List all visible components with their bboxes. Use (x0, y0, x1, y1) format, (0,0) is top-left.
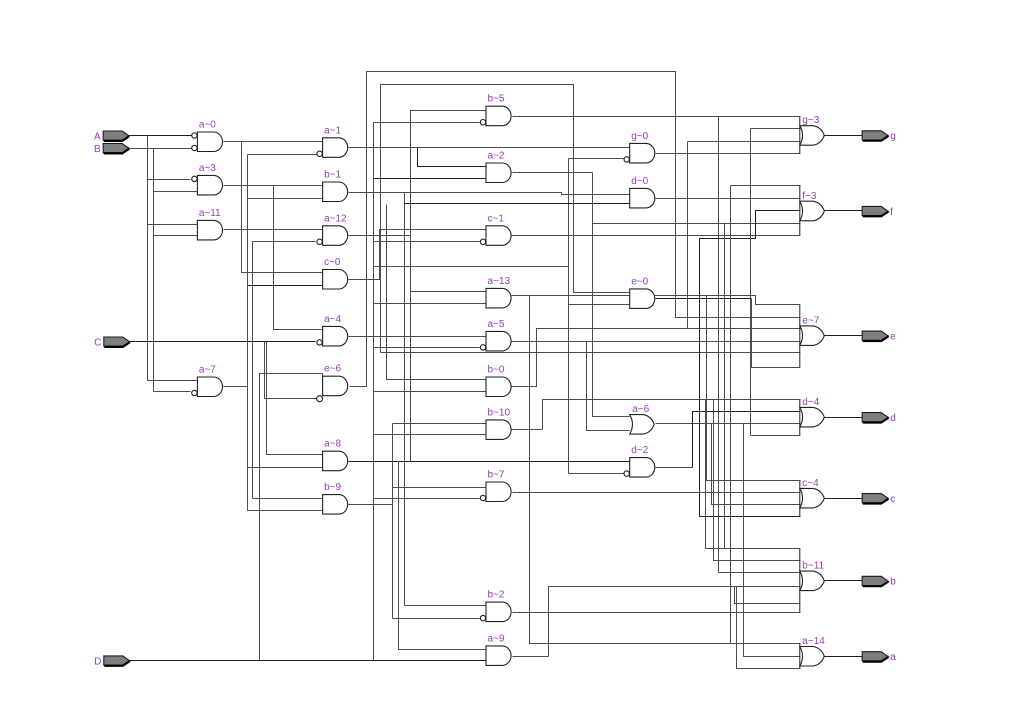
svg-text:a~9: a~9 (488, 633, 505, 644)
wire c~0 out to c~1 (349, 230, 487, 280)
AND gate a~13 (486, 276, 511, 308)
wire net to f~3 in3 (700, 211, 801, 517)
wire d~2 out (656, 467, 693, 469)
svg-text:C: C (94, 337, 101, 348)
AND gate d~2 (624, 445, 655, 477)
svg-text:B: B (94, 144, 101, 155)
AND gate a~12 (317, 213, 348, 245)
wire a~9 out (513, 656, 549, 658)
wire a~8 out to d~2 (349, 461, 630, 463)
wire a~12 out (349, 235, 411, 237)
svg-text:a~13: a~13 (488, 276, 511, 287)
svg-text:a~3: a~3 (199, 163, 216, 174)
wire a~2 out (513, 172, 593, 174)
wire a~7 to b~9 (248, 510, 323, 512)
wire a~13 branch c~4 (707, 296, 801, 481)
svg-text:e~7: e~7 (802, 315, 819, 326)
wire b~5 out to g~3 (513, 116, 801, 118)
wire D to a~9 (130, 660, 487, 662)
wire net to b~0 top (387, 205, 486, 380)
svg-text:c~0: c~0 (324, 257, 341, 268)
wire a~5 branch a~6 (587, 342, 630, 431)
wire a~8 net to a~13 (411, 291, 487, 293)
svg-text:D: D (94, 656, 101, 667)
wire A to a~7 (148, 380, 198, 382)
AND gate e~6 (317, 364, 348, 402)
output pin e (862, 331, 896, 342)
input pin D (94, 656, 130, 667)
svg-text:c~4: c~4 (802, 478, 819, 489)
svg-text:a~8: a~8 (324, 439, 341, 450)
AND gate a~7 (192, 365, 223, 397)
output pin g (862, 131, 896, 142)
wire a~13 to a~14 (530, 296, 801, 644)
wire a~9 branch b~11 low (735, 587, 801, 604)
wire e~7 out to pin e (825, 335, 863, 337)
svg-text:b~2: b~2 (488, 590, 505, 601)
svg-text:e: e (890, 332, 896, 343)
wire a~6 to a~14 (744, 424, 801, 657)
wire b~9 to b~2 (393, 618, 480, 620)
OR gate c~4 (800, 478, 825, 516)
wire a~3 out to a~4 (274, 186, 323, 330)
wire D to c~1 (374, 241, 480, 243)
wire D to b~10 (374, 434, 487, 436)
wire D to b~5 (374, 122, 480, 124)
input pin C (94, 337, 130, 348)
wire loop 84 to e~0 (381, 85, 630, 353)
svg-text:A: A (94, 131, 101, 142)
wire a~5 to g~3 (751, 128, 801, 130)
wire B to a~11 (154, 235, 198, 237)
wire b~10 out (512, 429, 543, 431)
svg-text:g~0: g~0 (631, 131, 648, 142)
wire A to a~11 (148, 224, 198, 226)
wire A to a~0 (130, 135, 192, 137)
wire D branch e~6 top (260, 374, 323, 661)
wire bus vertical 724 (724, 223, 726, 549)
AND gate b~0 (486, 365, 511, 397)
wire a~6 branch c~4 (712, 424, 801, 505)
wire B vertical bus (153, 149, 155, 392)
wire B to a~3 (154, 191, 198, 193)
wire D to b~0 (374, 391, 487, 393)
wire e~0 out (656, 298, 752, 300)
wire b~1 out to d~0 (349, 193, 630, 195)
wire b~9 net vertical (392, 424, 394, 619)
wire d~2 to d~4 (693, 412, 801, 468)
svg-text:a~11: a~11 (199, 208, 221, 219)
AND gate a~1 (317, 125, 348, 157)
svg-text:d~4: d~4 (802, 397, 819, 408)
wire a~5 net vertical (750, 129, 752, 436)
wire d~0 out to f~3 (656, 198, 801, 200)
wire a~7 out (224, 386, 248, 388)
AND gate a~9 (486, 633, 511, 665)
AND gate d~0 (630, 176, 655, 208)
wire D vertical bus (373, 123, 375, 661)
wire a~5 to d~4 (751, 435, 801, 437)
wire C to a~4 (130, 341, 316, 343)
OR gate a~6 (630, 404, 655, 434)
wire a~6 out to d~4 (656, 423, 801, 425)
svg-text:b: b (890, 577, 896, 588)
wire D to g~0 (569, 158, 624, 160)
wire A vertical bus (147, 136, 149, 381)
svg-text:f~3: f~3 (802, 191, 817, 202)
svg-text:c~1: c~1 (488, 213, 505, 224)
wire b~9 to b~10 (393, 423, 487, 425)
AND gate a~11 (197, 208, 222, 240)
svg-text:g~3: g~3 (802, 115, 819, 126)
wire b~2 out to b~11 (513, 612, 801, 614)
svg-text:a~6: a~6 (632, 404, 649, 415)
wire b~1 to b~2 (405, 605, 487, 607)
wire b~5 net to b~11 (719, 117, 801, 573)
wire b~11 out to pin b (825, 580, 863, 582)
wire a~7 net vertical (247, 155, 249, 511)
wire a~13 out (512, 296, 801, 305)
svg-text:b~0: b~0 (488, 365, 505, 376)
AND gate c~0 (323, 257, 348, 289)
OR gate d~4 (800, 397, 825, 435)
wire a~7 to c~0 (248, 285, 323, 287)
svg-text:b~5: b~5 (488, 94, 505, 105)
wire b~10 branch b~11 (706, 400, 801, 549)
svg-text:b~10: b~10 (488, 407, 511, 418)
wire b~1 net vertical (404, 193, 406, 606)
output pin a (862, 652, 896, 663)
AND gate a~0 (192, 120, 223, 152)
output pin d (862, 413, 896, 424)
AND gate b~2 (480, 590, 511, 622)
svg-text:a~4: a~4 (324, 314, 341, 325)
svg-text:e~0: e~0 (631, 276, 648, 287)
wire a~0 out to a~1 (224, 141, 323, 143)
input pin A (94, 131, 129, 142)
output pin f (862, 206, 893, 217)
wire a~3 out to b~1 (224, 185, 323, 187)
OR gate e~7 (800, 305, 825, 367)
wire D to e~0 (569, 304, 630, 306)
wire f~3 out to pin f (825, 210, 863, 212)
OR gate a~14 (800, 636, 825, 668)
wire g~3 in3 vertical (687, 142, 689, 329)
wire c~4 out to pin c (825, 498, 863, 500)
AND gate b~10 (486, 407, 511, 439)
AND gate b~9 (323, 482, 348, 514)
svg-text:a: a (890, 652, 896, 663)
wire a~4 out to a~5 (349, 336, 487, 338)
wire D to a~2 (374, 178, 487, 180)
svg-text:d~0: d~0 (631, 176, 648, 187)
wire e~6 out loop (350, 72, 801, 387)
output pin c (862, 494, 895, 505)
wire g~0 out to g~3 (656, 153, 801, 155)
AND gate a~5 (480, 319, 511, 351)
svg-text:a~7: a~7 (199, 365, 216, 376)
svg-text:g: g (890, 131, 896, 142)
AND gate a~2 (486, 151, 511, 183)
OR gate b~11 (800, 549, 825, 613)
svg-text:a~5: a~5 (488, 319, 505, 330)
svg-text:b~9: b~9 (324, 482, 341, 493)
wire g~3 out to pin g (825, 135, 863, 137)
wire D to d~2 (569, 473, 624, 475)
wire b~10 net step (543, 400, 801, 430)
wire a~7 to a~8 (248, 467, 323, 469)
svg-text:f: f (890, 207, 893, 218)
wire b~10 to b~11 (714, 400, 801, 561)
wire b~9 out (349, 504, 393, 506)
svg-text:b~1: b~1 (324, 170, 341, 181)
wire loop 84 to e~7 (381, 352, 801, 354)
input pin B (94, 144, 129, 155)
wire a~7 to a~1 (248, 154, 317, 156)
wire C to b~9 (253, 498, 323, 500)
AND gate a~3 (192, 163, 223, 195)
wire D right vertical (568, 159, 570, 474)
wire D to a~13 (374, 303, 487, 305)
AND gate g~0 (624, 131, 655, 163)
wire D branch right (374, 266, 569, 268)
wire e~0 to e~7 low (752, 299, 801, 368)
wire a~2 net vertical (593, 173, 630, 417)
wire a~14 out to pin a (825, 656, 863, 658)
wire a~7 to b~1 (248, 198, 323, 200)
svg-text:d~2: d~2 (631, 445, 648, 456)
wire B to a~0 (130, 148, 192, 150)
wire c~1 out to f~3 (512, 235, 801, 237)
OR gate g~3 (800, 115, 825, 154)
AND gate b~5 (480, 94, 511, 126)
svg-text:e~6: e~6 (324, 364, 341, 375)
wire a~1 out to a~2 (418, 148, 487, 167)
wire B to a~7 (154, 391, 191, 393)
wire C branch e~6 (265, 342, 317, 399)
wire f~3 in1 vertical (730, 186, 732, 644)
svg-text:a~14: a~14 (802, 636, 825, 647)
wire b~9 to b~7 (393, 487, 487, 489)
AND gate e~0 (630, 276, 655, 308)
wire a~9 net to b~11 (549, 587, 801, 657)
wire C branch a~8 (267, 342, 323, 455)
wire C vertical bus (252, 242, 254, 499)
wire a~11 out to a~12 (224, 229, 323, 231)
wire C to a~12 (253, 241, 316, 243)
svg-text:a~1: a~1 (324, 125, 341, 136)
wire A to a~3 (148, 179, 191, 181)
svg-text:a~2: a~2 (488, 151, 505, 162)
svg-text:b~7: b~7 (488, 470, 505, 481)
wire d~4 out to pin d (825, 417, 863, 419)
svg-text:a~12: a~12 (324, 213, 347, 224)
svg-text:b~11: b~11 (802, 561, 824, 572)
AND gate b~7 (480, 470, 511, 502)
AND gate a~4 (317, 314, 348, 346)
AND gate c~1 (480, 213, 511, 245)
wire a~8 net to a~9 (399, 462, 487, 650)
wire D to a~5 (374, 347, 480, 349)
svg-text:c: c (890, 494, 895, 505)
output pin b (862, 576, 896, 587)
svg-text:a~0: a~0 (199, 120, 216, 131)
wire a~8 net to b~5 (411, 111, 487, 462)
wire b~1 to d~0 low (405, 203, 630, 205)
wire a~2 to f~3 (593, 223, 801, 225)
wire b~7 out to c~4 (513, 492, 801, 494)
wire a~5 out to e~7 (512, 341, 801, 343)
wire D to b~7 (374, 498, 480, 500)
AND gate a~8 (323, 439, 348, 471)
AND gate b~1 (323, 170, 348, 202)
wire a~1 out to g~0 (349, 147, 630, 149)
OR gate f~3 (800, 185, 825, 235)
svg-text:d: d (890, 413, 896, 424)
wire b~0 out (512, 329, 801, 387)
wire a~9 branch a~14 (737, 587, 801, 669)
wire to g~3 in3 (688, 141, 801, 143)
wire a~0 out to c~0 (242, 142, 323, 273)
wire to f~3 in1 (731, 185, 801, 187)
